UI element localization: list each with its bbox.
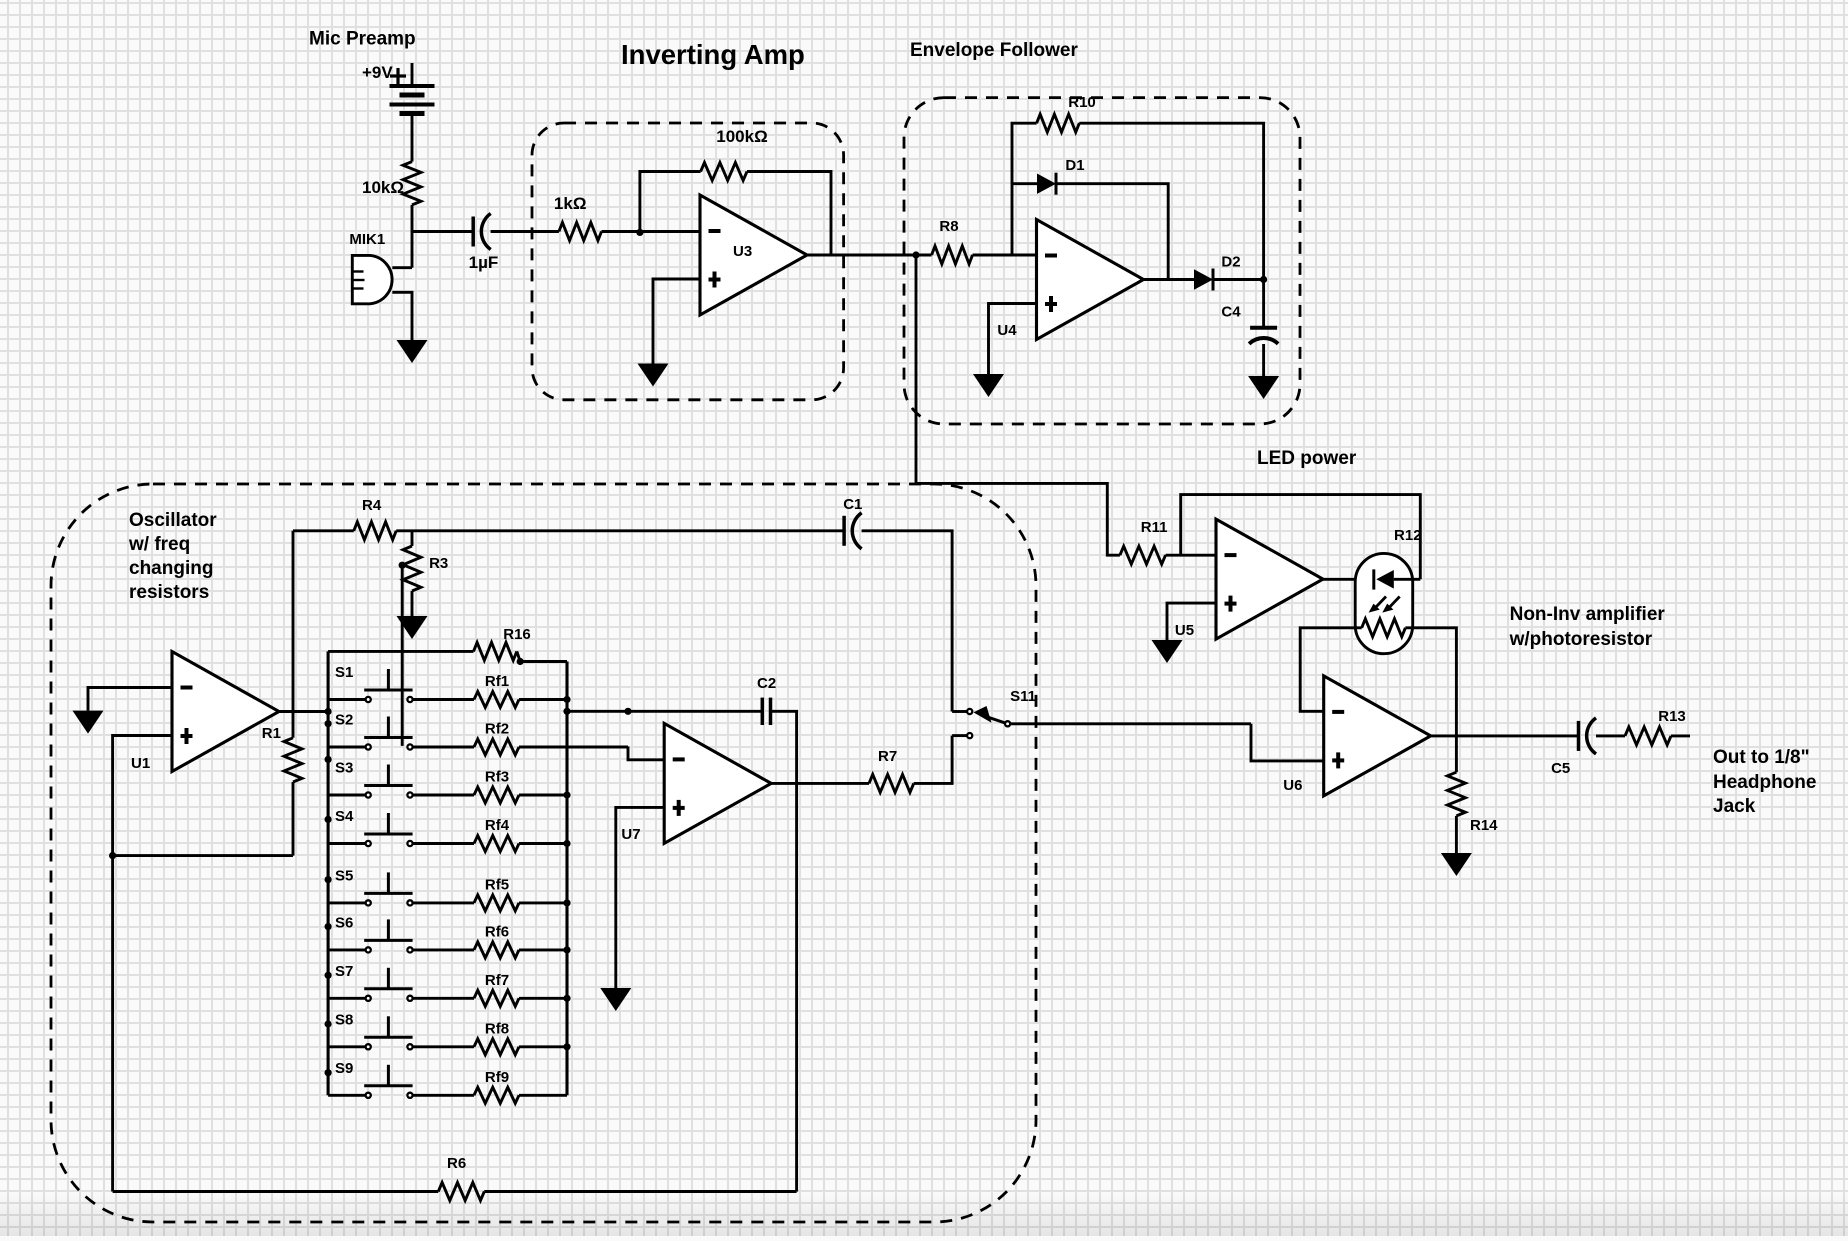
svg-text:R10: R10 [1068, 94, 1096, 111]
svg-text:R8: R8 [939, 218, 958, 235]
svg-text:resistors: resistors [129, 582, 209, 603]
svg-text:S8: S8 [335, 1011, 353, 1028]
svg-text:R3: R3 [429, 555, 448, 572]
svg-text:+9V: +9V [362, 63, 393, 82]
svg-text:R16: R16 [503, 626, 531, 643]
svg-text:Mic Preamp: Mic Preamp [309, 29, 416, 50]
svg-text:LED power: LED power [1257, 448, 1357, 469]
svg-text:S2: S2 [335, 712, 353, 729]
svg-text:Oscillator: Oscillator [129, 510, 217, 531]
svg-text:Rf7: Rf7 [485, 972, 509, 989]
svg-text:D2: D2 [1221, 254, 1240, 271]
svg-text:U3: U3 [733, 243, 752, 260]
svg-text:Rf4: Rf4 [485, 817, 510, 834]
svg-text:Envelope Follower: Envelope Follower [910, 40, 1078, 61]
svg-text:U4: U4 [997, 322, 1017, 339]
svg-text:S3: S3 [335, 760, 353, 777]
svg-text:Rf3: Rf3 [485, 769, 509, 786]
svg-text:100kΩ: 100kΩ [716, 127, 767, 146]
svg-text:R12: R12 [1394, 527, 1422, 544]
svg-text:Rf8: Rf8 [485, 1020, 509, 1037]
svg-text:R6: R6 [447, 1155, 466, 1172]
svg-text:R13: R13 [1658, 708, 1686, 725]
svg-text:1µF: 1µF [469, 253, 499, 272]
svg-text:Rf9: Rf9 [485, 1069, 509, 1086]
svg-text:Rf5: Rf5 [485, 876, 509, 893]
svg-text:S7: S7 [335, 963, 353, 980]
svg-text:S4: S4 [335, 808, 354, 825]
svg-text:R14: R14 [1470, 817, 1498, 834]
svg-text:R11: R11 [1141, 519, 1168, 536]
svg-text:Inverting Amp: Inverting Amp [621, 39, 805, 70]
svg-text:w/ freq: w/ freq [128, 534, 190, 555]
svg-text:Non-Inv amplifier: Non-Inv amplifier [1510, 604, 1666, 625]
svg-text:D1: D1 [1065, 157, 1084, 174]
svg-text:1kΩ: 1kΩ [554, 194, 587, 213]
svg-text:U6: U6 [1283, 777, 1302, 794]
svg-text:10kΩ: 10kΩ [362, 178, 404, 197]
svg-text:C2: C2 [757, 675, 776, 692]
svg-text:Out to 1/8": Out to 1/8" [1713, 747, 1810, 768]
svg-text:Rf6: Rf6 [485, 923, 509, 940]
svg-text:S9: S9 [335, 1060, 353, 1077]
svg-text:Headphone: Headphone [1713, 772, 1816, 793]
svg-text:MIK1: MIK1 [349, 231, 385, 248]
svg-text:C4: C4 [1221, 304, 1241, 321]
svg-text:S11: S11 [1010, 688, 1036, 705]
svg-text:C5: C5 [1551, 760, 1570, 777]
svg-text:R4: R4 [362, 497, 382, 514]
svg-text:Rf2: Rf2 [485, 721, 509, 738]
svg-text:R1: R1 [262, 725, 281, 742]
svg-text:S5: S5 [335, 867, 353, 884]
svg-text:Jack: Jack [1713, 796, 1756, 817]
svg-text:U7: U7 [621, 826, 640, 843]
svg-text:Rf1: Rf1 [485, 673, 509, 690]
svg-text:R7: R7 [878, 748, 897, 765]
svg-text:changing: changing [129, 558, 213, 579]
svg-text:U5: U5 [1175, 622, 1194, 639]
svg-text:S6: S6 [335, 914, 353, 931]
svg-text:w/photoresistor: w/photoresistor [1509, 629, 1653, 650]
svg-text:C1: C1 [843, 496, 862, 513]
svg-text:U1: U1 [131, 755, 150, 772]
svg-text:S1: S1 [335, 664, 353, 681]
